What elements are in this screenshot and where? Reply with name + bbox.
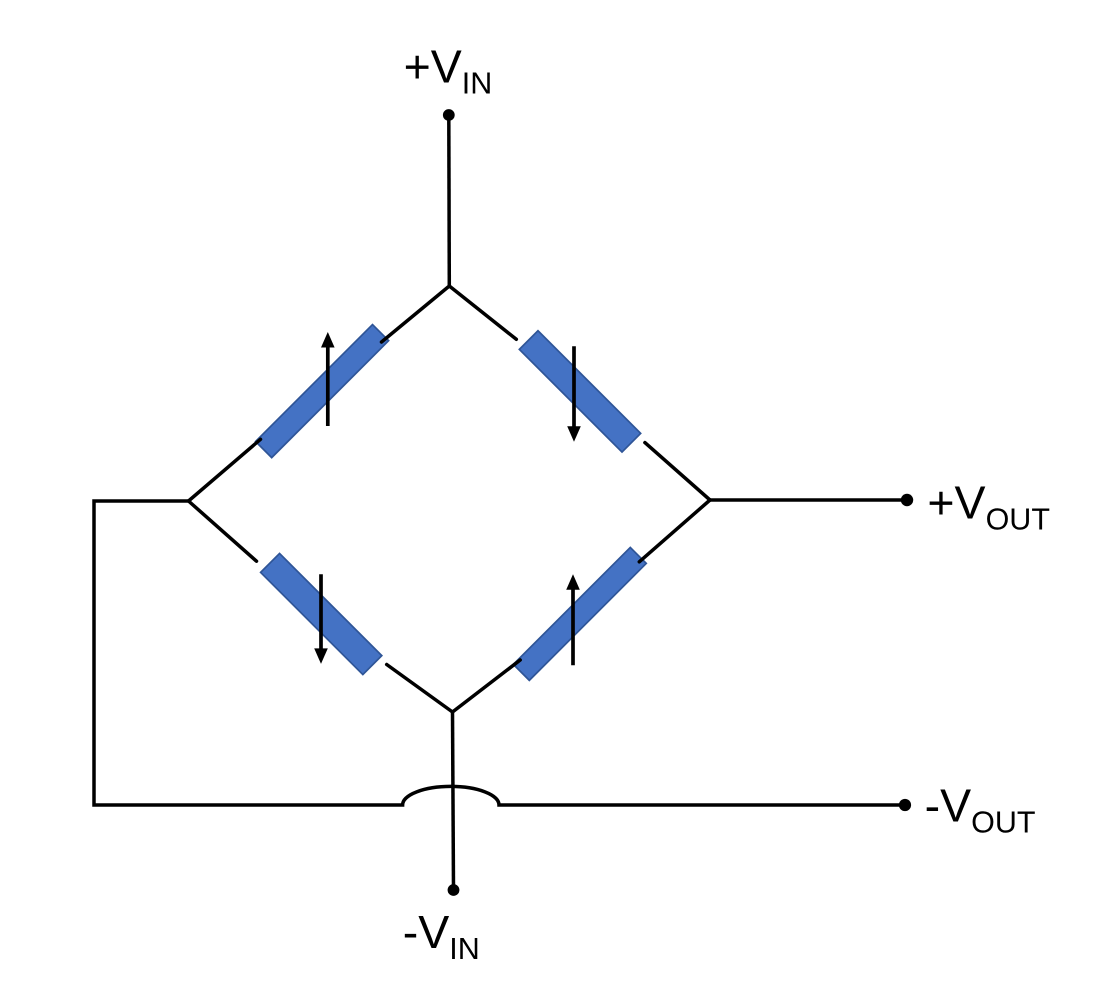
wire top-left arm upper segment (G1 to top vertex) [382,286,450,342]
wire top-right arm lower segment (G2 to right vertex) [645,443,710,500]
svg-text:-VOUT: -VOUT [925,779,1036,839]
wire bottom-left arm upper segment (left vertex to G3) [189,501,257,561]
wire bottom-right arm lower segment (bottom vertex to G4) [453,660,521,712]
strain gauge G1 (top-left arm) [256,325,389,458]
svg-text:+VIN: +VIN [404,41,493,101]
wire bottom-right arm upper segment (G4 to right vertex) [639,500,710,562]
node -VOUT terminal dot [899,799,911,811]
arrow G4 resistance-increase (up) [566,574,580,665]
wire top-left arm lower segment (left vertex to G1) [189,439,261,501]
node +VOUT terminal dot [901,494,913,506]
wire -VOUT lead (left vertex around to terminal, with hop over -VIN lead) [94,501,905,805]
strain gauge G2 (top-right arm) [519,331,640,452]
wire +VIN lead (terminal to top vertex) [447,115,451,286]
arrow G3 resistance-decrease (down) [314,574,328,664]
wire bottom-left arm lower segment (G3 to bottom vertex) [387,665,453,713]
strain gauge G3 (bottom-left arm) [261,553,382,674]
arrow G2 resistance-decrease (down) [567,346,581,441]
wire +VOUT lead (right vertex to terminal) [710,498,907,502]
svg-text:-VIN: -VIN [403,906,480,966]
node -VIN terminal dot [448,884,460,896]
wire -VIN lead (bottom vertex to terminal) [453,712,454,890]
arrow G1 resistance-increase (up) [321,332,335,426]
strain gauge G4 (bottom-right arm) [513,547,646,680]
svg-text:+VOUT: +VOUT [927,477,1050,537]
wire top-right arm upper segment (top vertex to G2) [449,286,516,339]
node +VIN terminal dot [443,109,455,121]
